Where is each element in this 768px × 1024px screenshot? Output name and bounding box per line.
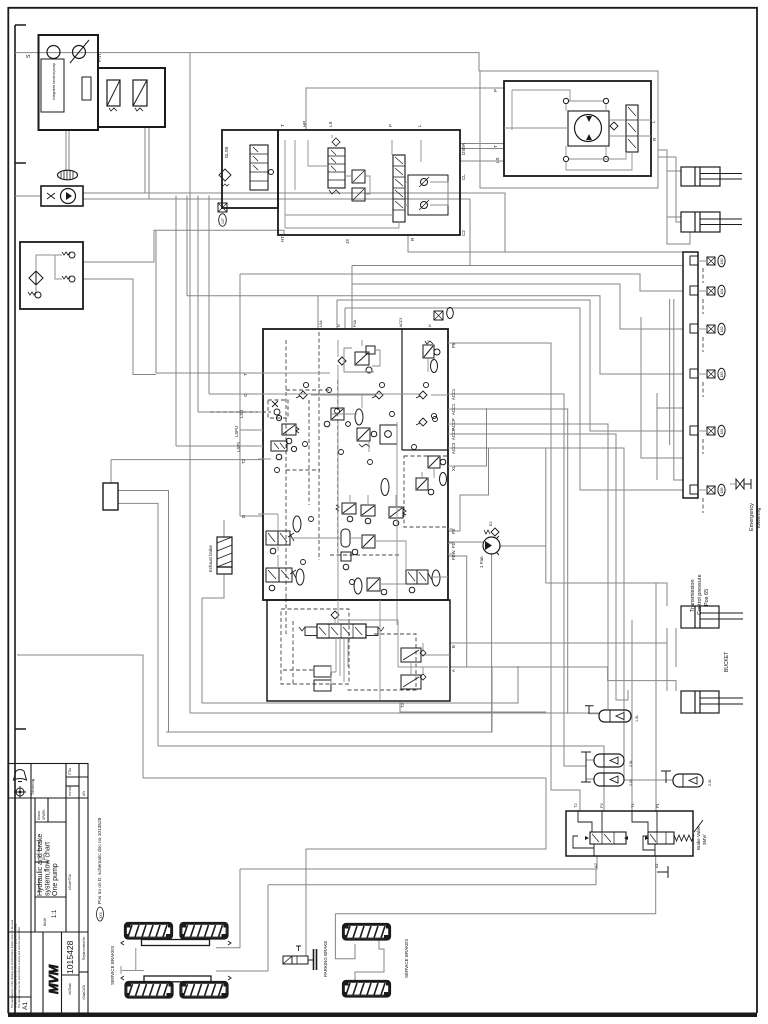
wire T1 feed: [631, 620, 633, 811]
wire FD: [448, 541, 484, 543]
svg-text:181: 181: [720, 289, 724, 295]
relief valve assembly top: [338, 346, 375, 373]
reducer 1: [401, 648, 421, 662]
wire bucket cyl link: [666, 628, 668, 691]
svg-text:J3: J3: [345, 239, 350, 244]
lower diamond: [331, 611, 339, 619]
K2 valve: [276, 415, 299, 443]
svg-text:SERVICE BRAKES: SERVICE BRAKES: [110, 946, 115, 985]
wire bus y778: [143, 777, 546, 779]
dashed manifold stubs: [702, 268, 704, 283]
emergency lowering valve: [736, 479, 751, 489]
svg-text:A1: A1: [22, 1002, 29, 1010]
DS9A small box: [408, 175, 448, 215]
center AdB valve: [324, 408, 397, 447]
wire bundle top a: [408, 235, 683, 252]
svg-text:Brake Valve: Brake Valve: [696, 826, 701, 850]
wire bundle c: [240, 274, 683, 291]
svg-text:P1: P1: [655, 802, 660, 808]
svg-text:LS: LS: [328, 121, 333, 127]
wire XL: [448, 408, 487, 466]
wire ACC3: [448, 448, 624, 780]
DS9A check small 2: [421, 202, 428, 209]
DS9A tall valve: [393, 155, 405, 222]
LSP1 valve: [271, 441, 297, 460]
wire cooler line: [15, 195, 41, 197]
solenoid valve PB top right: [423, 341, 440, 373]
relief valve 1: [107, 80, 120, 106]
svg-text:P: P: [493, 89, 498, 92]
bell icon: [14, 770, 27, 782]
svg-text:T1: T1: [630, 803, 635, 808]
cooler triangle: [66, 192, 72, 200]
dashed box xl: [404, 456, 448, 527]
title block frame: [8, 764, 88, 1014]
wire steering LS leadin: [460, 160, 504, 162]
acc23 bleed: [581, 752, 591, 782]
svg-text:system,flow chart: system,flow chart: [45, 842, 52, 896]
wire B: [450, 628, 667, 643]
svg-text:P2: P2: [599, 802, 604, 808]
wire ACC1: [448, 394, 586, 766]
svg-text:T: T: [243, 373, 248, 376]
dashed vert main block 4: [308, 400, 310, 505]
accumulator 3: [594, 773, 624, 786]
DS9A check small 1: [421, 179, 428, 186]
fold mark top: [15, 24, 26, 26]
steering valve stack: [626, 105, 638, 152]
proportional valve: [317, 624, 366, 638]
wire y885: [268, 869, 596, 885]
svg-text:E2: E2: [489, 521, 493, 526]
wheel mid2: [343, 981, 390, 997]
svg-text:MVM: MVM: [47, 964, 61, 994]
main block inner wires: [263, 340, 448, 625]
reducer 2: [401, 675, 421, 689]
svg-text:PARKING BRAKE: PARKING BRAKE: [323, 941, 328, 977]
svg-text:HT: HT: [280, 236, 285, 242]
svg-text:SERVICE BRAKES: SERVICE BRAKES: [404, 939, 409, 978]
lower block: [267, 600, 450, 701]
svg-text:Drawn: Drawn: [37, 811, 41, 820]
steering nodes: [563, 98, 568, 103]
parking brake: [283, 956, 292, 964]
steering inner rect: [568, 111, 609, 146]
svg-text:SPARK: SPARK: [42, 809, 46, 820]
wire steer cyl v1: [658, 150, 690, 244]
left wheels link: [121, 948, 144, 974]
wire lspu: [240, 429, 263, 431]
svg-text:2.0L: 2.0L: [629, 779, 633, 786]
svg-text:LS: LS: [495, 157, 500, 163]
svg-text:LSD: LSD: [239, 410, 244, 418]
svg-text:1 Fan: 1 Fan: [479, 556, 484, 568]
dashed horiz lsd: [210, 411, 271, 413]
svg-text:XXX: XXX: [99, 911, 103, 919]
svg-text:rev nd.: rev nd.: [68, 786, 72, 796]
pump unit box2: [98, 68, 165, 127]
wire fan down: [491, 553, 493, 732]
bucket cylinder 1: [681, 606, 743, 628]
wire bundle g: [345, 308, 683, 490]
wire bucket cyl top feed: [546, 583, 667, 606]
small field texts: [31, 768, 86, 1000]
port labels right: [400, 342, 456, 708]
svg-text:T2: T2: [573, 803, 578, 808]
svg-text:Exhaust brake: Exhaust brake: [208, 545, 213, 572]
svg-text:127: 127: [221, 218, 225, 224]
steering box: [504, 81, 651, 176]
filter diamond: [29, 271, 43, 285]
svg-text:184: 184: [720, 429, 724, 435]
wire exhaust brake out: [202, 574, 224, 598]
relief valve 2: [133, 80, 147, 106]
svg-text:One pump: One pump: [52, 863, 59, 896]
main block: [263, 329, 448, 600]
relief loop wires: [344, 348, 380, 372]
wire mid wheel drop: [335, 914, 355, 959]
svg-text:cDaaCaTa: cDaaCaTa: [82, 985, 86, 1000]
wire pump drop: [65, 130, 67, 171]
left axle bottom: [144, 976, 211, 982]
left axle top: [142, 940, 210, 946]
svg-text:1015428: 1015428: [65, 940, 75, 974]
wire ACCP: [448, 424, 608, 709]
center capsule + valve: [341, 529, 375, 570]
svg-text:A2: A2: [593, 862, 598, 868]
acc4 bleed: [661, 771, 671, 783]
DS9A mini reducer 2: [352, 188, 365, 201]
manifold port notches: [690, 256, 698, 494]
svg-text:180: 180: [720, 259, 724, 265]
steering circle: [575, 115, 602, 142]
wire bus x202 up: [201, 598, 203, 703]
wire bundle verticals into block: [317, 296, 319, 329]
DLS0 node: [269, 170, 274, 175]
svg-text:Integrated tandem pump: Integrated tandem pump: [52, 63, 56, 100]
fold mark mid: [15, 162, 26, 164]
svg-text:or disclosed to third party wi: or disclosed to third party without writ…: [14, 923, 18, 1008]
wheel tl2: [181, 923, 228, 939]
lower valve 2: [314, 680, 331, 691]
brake valve box: [566, 811, 693, 856]
LSD cluster: [272, 401, 280, 415]
DLS0 pressure filter: [219, 169, 231, 181]
lower wires: [331, 600, 450, 700]
svg-text:2.0L: 2.0L: [708, 779, 712, 786]
wire exhaust top stub: [223, 520, 225, 537]
pump 2 arrow: [70, 40, 89, 63]
wire bus y713: [190, 712, 599, 714]
port labels left: [234, 373, 248, 518]
dashed horiz in block 3: [330, 554, 400, 556]
wire y913 A1: [335, 856, 655, 914]
svg-text:Approved: Approved: [37, 879, 41, 893]
wire bundle e: [187, 296, 683, 374]
dashed vert main block 2: [318, 332, 320, 560]
steering diamond: [610, 122, 618, 130]
svg-text:Pos no on D. schematic doc no: Pos no on D. schematic doc no 1013529: [97, 817, 103, 904]
wire steering gray loop: [479, 71, 658, 188]
svg-text:C2: C2: [461, 230, 466, 236]
bucket cylinder 2: [681, 691, 743, 713]
svg-text:DS9A: DS9A: [461, 143, 466, 155]
left margin line: [14, 25, 16, 1013]
wire bus y746: [158, 746, 604, 811]
wire steering P leadin: [306, 88, 504, 130]
svg-text:185: 185: [720, 488, 724, 494]
dashed box lsd: [268, 400, 288, 418]
pump text box: [41, 59, 64, 112]
svg-text:2.0L: 2.0L: [629, 760, 633, 767]
steer cylinder 2: [681, 212, 742, 232]
svg-text:DbH: DbH: [42, 853, 46, 860]
wheel bl1: [126, 982, 173, 998]
steer cylinder 1: [681, 167, 742, 186]
wire connector down: [118, 491, 169, 733]
DS9A valve 1: [328, 148, 345, 188]
DLS0 valve: [250, 145, 268, 190]
bottom solenoid right: [406, 570, 440, 593]
wire o port: [209, 393, 263, 395]
wire FS: [448, 448, 489, 531]
wire filter out1: [83, 230, 284, 262]
svg-text:T2: T2: [241, 458, 246, 464]
wire left port verticals: [155, 230, 157, 373]
wire bus y732: [166, 666, 492, 732]
pump unit box: [39, 35, 99, 130]
wire lsp1: [176, 445, 263, 447]
steering arrows: [586, 116, 592, 140]
wire y869 A2: [240, 856, 597, 869]
fan diamond: [491, 528, 499, 536]
wire filter out2: [83, 279, 156, 375]
exhaust brake body: [217, 537, 232, 567]
wire y849: [306, 778, 546, 849]
svg-text:The reproduction of this drawi: The reproduction of this drawing and all…: [10, 919, 14, 1008]
accumulator 4: [673, 774, 703, 787]
main block divider: [401, 329, 403, 450]
svg-text:DLS0: DLS0: [224, 146, 229, 158]
svg-text:LSP1: LSP1: [236, 441, 241, 452]
wire steering T leadin: [460, 143, 504, 145]
svg-text:Db checked: Db checked: [37, 841, 41, 858]
wire steer cyl v2: [658, 157, 681, 222]
DS9A mini reducer 1: [352, 170, 365, 183]
small test sq: [218, 203, 227, 212]
cooler restrictor: [47, 193, 55, 199]
wheel mid1: [343, 924, 390, 940]
wire cooler out2: [83, 199, 470, 266]
brake spring: [674, 835, 694, 841]
wire pump to steering: [15, 53, 479, 71]
fan motor circle: [483, 537, 500, 554]
svg-text:ITDa: ITDa: [68, 768, 72, 775]
extra node circles: [275, 388, 438, 585]
svg-text:183: 183: [720, 372, 724, 378]
svg-text:aTo: aTo: [82, 791, 86, 796]
cooler box: [41, 186, 83, 206]
wire t2 left: [110, 460, 112, 484]
dashed horiz in block 1: [286, 389, 330, 391]
svg-text:The design must not be used wi: The design must not be used without cons…: [17, 927, 21, 1008]
svg-text:Emergency: Emergency: [749, 503, 755, 531]
connector rect: [103, 483, 118, 510]
brake spool 1: [590, 832, 626, 844]
pump circle 1: [47, 46, 60, 59]
brake spool 2: [648, 832, 674, 844]
check valve 1: [69, 252, 75, 258]
wire manifold left verticals: [641, 317, 683, 458]
dashed vert main block 3: [337, 380, 339, 555]
wire pump box2 drops: [144, 127, 146, 193]
wire ACC1b: [448, 409, 568, 714]
brake bleed stub: [657, 866, 668, 878]
manifold stubs to test points: [698, 261, 707, 490]
lower valve 1: [314, 666, 331, 677]
wire steer cyl stubs: [667, 170, 681, 172]
fan oval: [58, 170, 78, 180]
svg-text:P: P: [388, 124, 393, 127]
crosshair icon: [16, 788, 24, 796]
left solenoid valve 1: [266, 516, 301, 554]
wire acc1 stub: [589, 713, 599, 715]
svg-text:3MV/: 3MV/: [702, 834, 707, 845]
svg-text:PSA: PSA: [353, 319, 357, 327]
svg-text:1.0L: 1.0L: [635, 715, 639, 722]
check valve 3: [35, 292, 41, 298]
left solenoid valve 2: [266, 568, 304, 591]
bottom small valve center: [354, 578, 387, 595]
svg-text:Tolerancing: Tolerancing: [31, 778, 35, 795]
mid row valves: [336, 503, 406, 526]
svg-text:xScaleTDa: xScaleTDa: [68, 874, 72, 890]
svg-text:PhT: PhT: [97, 53, 103, 62]
svg-text:182: 182: [720, 327, 724, 333]
svg-text:Replacement for: Replacement for: [82, 936, 86, 960]
DS9A inner wires: [285, 135, 448, 228]
port lead ticks: [258, 343, 453, 554]
wire T2 lower block: [400, 702, 546, 712]
wire x546 link: [545, 778, 547, 849]
wire lsd port: [198, 411, 263, 413]
wire acc23 stub: [586, 759, 594, 761]
svg-text:LSA: LSA: [319, 320, 323, 327]
small oval label: [219, 214, 227, 227]
svg-text:Pos 65: Pos 65: [704, 589, 710, 606]
wire fan right: [499, 546, 546, 583]
svg-text:1:1: 1:1: [52, 909, 58, 918]
pump inner tall rect: [82, 77, 91, 100]
svg-text:T: T: [493, 145, 498, 148]
check valve 2: [69, 276, 75, 282]
wire cooler out: [83, 193, 505, 252]
filter wires: [36, 255, 62, 292]
wire wheel feed 2: [216, 885, 268, 971]
test point above block: [434, 308, 453, 321]
dashed vert main block 1: [285, 340, 287, 598]
filter box: [20, 242, 83, 309]
accumulator 2: [594, 754, 624, 767]
svg-text:mVDaaL: mVDaaL: [68, 982, 72, 995]
wire t port: [156, 372, 263, 374]
wire bundle f: [337, 300, 683, 431]
wire ACCP2: [448, 434, 628, 700]
acc1 bleed: [585, 706, 594, 714]
svg-text:T2: T2: [400, 702, 405, 708]
svg-text:T: T: [280, 124, 285, 127]
wire bundle d: [352, 284, 683, 329]
valve springs: [109, 108, 143, 111]
svg-text:BA48: BA48: [43, 918, 47, 926]
left caliper hooks: [121, 941, 231, 980]
svg-text:LSPU: LSPU: [234, 426, 239, 437]
wire d port: [240, 515, 263, 517]
wire bus y703: [202, 666, 518, 703]
steering inner wires: [504, 90, 651, 170]
DS9A filter top: [332, 138, 340, 146]
svg-text:lowering: lowering: [756, 508, 762, 528]
svg-text:BUCKET: BUCKET: [724, 652, 730, 672]
svg-text:D: D: [241, 515, 246, 518]
test points: [707, 255, 725, 496]
wheel tl1: [125, 923, 172, 939]
wire A: [450, 667, 676, 691]
dashed lower block box: [281, 609, 349, 684]
wire P1 feed: [655, 583, 657, 811]
manifold column: [683, 252, 698, 498]
wire bundle b: [352, 265, 683, 267]
wire left vert x190: [189, 53, 191, 713]
svg-text:A: A: [451, 669, 456, 672]
svg-text:FDW: FDW: [451, 550, 456, 560]
bottom title bar: [8, 1013, 757, 1018]
brake valve inner port lines: [573, 811, 657, 856]
DS9A box: [278, 130, 460, 235]
accumulator 1: [599, 710, 631, 722]
cooler motor circle: [61, 189, 76, 204]
svg-text:B: B: [451, 645, 456, 648]
wire parking drop right: [305, 849, 307, 956]
wire acc4 stub: [624, 779, 673, 781]
check valve row nodes: [296, 382, 437, 426]
top port labels: [319, 318, 432, 327]
fold mark low: [15, 728, 26, 730]
wire left long bus: [17, 655, 143, 778]
svg-text:A1: A1: [654, 862, 659, 868]
DLS0 box: [222, 130, 278, 208]
wire FDW: [448, 556, 467, 667]
brake port labels: [573, 802, 660, 868]
wire mid wheel link: [355, 940, 384, 981]
svg-text:CL: CL: [461, 174, 466, 180]
wheel bl2: [181, 982, 228, 998]
svg-text:ACC3: ACC3: [399, 318, 403, 327]
wire wheel feed 1: [216, 869, 240, 948]
XL valves: [381, 456, 447, 496]
sub box divider bottom: [402, 449, 448, 451]
pump circle 2: [73, 46, 86, 59]
dashed horiz in block 2: [286, 469, 320, 471]
svg-text:HP: HP: [302, 121, 307, 127]
dashed lower block links: [347, 634, 416, 690]
wire P8: [448, 343, 580, 811]
